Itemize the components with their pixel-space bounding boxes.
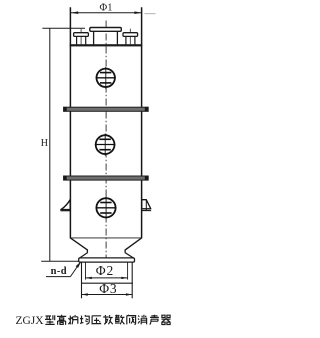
n-d leader arrow [70, 261, 81, 276]
flange band B1 [63, 107, 148, 112]
PHI3 dimension line [82, 293, 133, 295]
spool left side / PHI3 extension [81, 262, 83, 298]
flange band B2 [63, 176, 148, 181]
handhole circle C3 [96, 197, 117, 219]
outlet neck [87, 250, 125, 253]
bell flare [79, 253, 133, 259]
svg-text:ZGJX: ZGJX [16, 315, 45, 327]
bottom flange plate [79, 258, 135, 262]
spool right side / PHI3 extension [131, 262, 133, 298]
cone left side [70, 238, 87, 250]
handhole circle C1 [96, 67, 116, 89]
vessel centre line (dash-dot) [105, 21, 107, 263]
left support bracket [60, 200, 71, 211]
svg-text:H: H [41, 138, 48, 149]
right nozzle N3 cap [123, 33, 138, 37]
svg-text:Φ1: Φ1 [100, 3, 113, 14]
PHI2 dimension line [86, 277, 128, 279]
svg-text:n-d: n-d [51, 266, 67, 277]
vessel shell left edge [69, 7, 71, 238]
caption: pseudo-hanzi 型高炉均压放散阀消声器 [45, 315, 171, 325]
PHI2 extension lines [86, 262, 128, 279]
cone right side [125, 238, 142, 250]
H dimension bottom extension line [41, 260, 79, 262]
left nozzle N2 cap [74, 33, 89, 37]
dimension PHI1 line [71, 11, 156, 14]
right nozzle N3 neck [126, 36, 135, 44]
H dimension top extension line [42, 27, 85, 29]
n-d leader shelf [46, 276, 70, 278]
left nozzle N2 centre line [80, 29, 82, 45]
right nozzle N3 centre line [129, 29, 131, 45]
svg-text:Φ2: Φ2 [96, 263, 114, 278]
dimension PHI1 label [100, 3, 113, 14]
handhole circle C2 [95, 134, 116, 156]
vessel shell right edge [141, 7, 143, 238]
top plate [70, 44, 143, 46]
cone knuckle line [70, 237, 141, 239]
left nozzle N2 neck [77, 36, 86, 44]
svg-text:Φ3: Φ3 [99, 281, 117, 296]
right support bracket [141, 200, 151, 211]
H dimension line [49, 28, 51, 261]
centre nozzle N1 cap [90, 28, 122, 32]
centre nozzle N1 neck [94, 31, 118, 44]
spool bottom line [81, 282, 133, 284]
